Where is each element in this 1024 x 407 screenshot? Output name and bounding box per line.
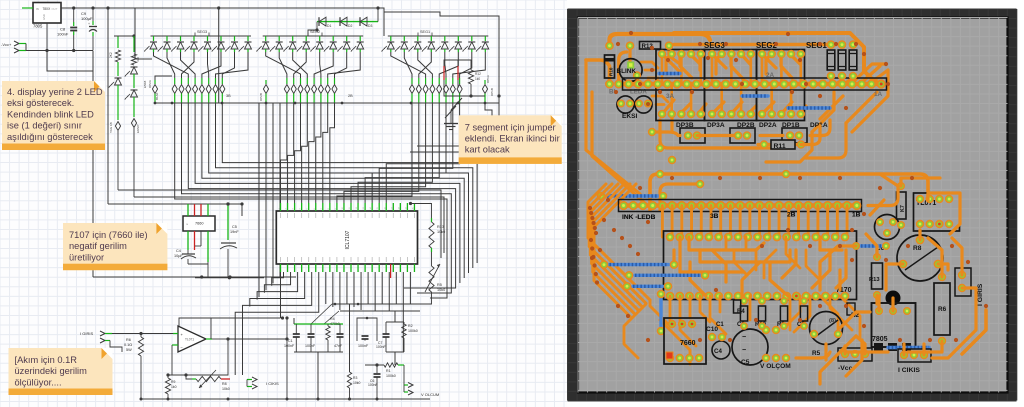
pads mid bottom xyxy=(708,333,716,341)
trace module2 interior xyxy=(712,54,726,68)
transistor K1 xyxy=(875,215,900,240)
diode D1 xyxy=(317,21,378,23)
trace fan right of row xyxy=(851,64,886,84)
trace row to socket xyxy=(661,206,664,238)
resistor R1 xyxy=(365,364,384,366)
svg-text:100nF: 100nF xyxy=(368,383,378,387)
diamond SEG3 col 7 xyxy=(215,78,217,84)
led SEG3 seg 7 xyxy=(234,36,236,41)
svg-text:C1: C1 xyxy=(716,322,724,328)
svg-text:D1: D1 xyxy=(327,24,331,28)
svg-text:47nF: 47nF xyxy=(334,344,343,348)
resistor R16 column xyxy=(117,36,119,48)
pcb panel frame xyxy=(568,9,1017,401)
svg-text:GND: GND xyxy=(42,14,46,20)
led SEG1 seg 3 xyxy=(417,36,419,41)
wire drop right of C5 xyxy=(241,204,243,216)
led SEG1 seg 8 xyxy=(484,36,486,41)
wire left led column rails xyxy=(118,190,441,258)
led SEG2 seg 3 xyxy=(292,36,294,41)
seg1 resistor pads xyxy=(827,40,836,49)
svg-text:4. display yerine 2 LED: 4. display yerine 2 LED xyxy=(7,87,103,97)
svg-text:0.1Ω: 0.1Ω xyxy=(124,343,132,347)
svg-text:DP2A: DP2A xyxy=(148,80,152,88)
wire red pin xyxy=(390,264,392,278)
diamond SEG3 col 5 xyxy=(201,78,203,84)
node V OLCUM xyxy=(403,365,405,385)
segment group SEG1 bus xyxy=(388,35,489,37)
cap C5 xyxy=(732,329,768,365)
wire mid rails xyxy=(332,303,430,305)
trace socket bottom fan xyxy=(669,296,672,322)
diamond SEG2 col 6 xyxy=(320,78,322,84)
diamond SEG1 col 7 xyxy=(452,78,454,84)
led SEG1 seg 7 xyxy=(471,36,473,41)
trace seg1 resistors xyxy=(829,76,832,84)
svg-text:I GIRIS: I GIRIS xyxy=(977,283,984,306)
svg-text:R2: R2 xyxy=(408,324,413,328)
diode eksi xyxy=(605,55,615,78)
svg-text:üretiliyor: üretiliyor xyxy=(69,252,104,262)
svg-text:7805: 7805 xyxy=(33,24,43,29)
diamond SEG3 col 1 xyxy=(174,78,176,84)
svg-text:R10: R10 xyxy=(609,67,614,76)
svg-text:DP2A: DP2A xyxy=(759,122,777,129)
wire right columns xyxy=(258,103,260,297)
wire IC bottom mid drops xyxy=(325,272,327,304)
svg-text:3B: 3B xyxy=(710,213,719,220)
led SEG3 seg 4 xyxy=(193,36,195,41)
svg-text:SEG2: SEG2 xyxy=(756,41,777,50)
wire bottom bus xyxy=(141,398,430,400)
svg-text:3B: 3B xyxy=(226,94,231,98)
diamond DP1A xyxy=(484,80,486,84)
diamond SEG1 col 1 xyxy=(411,78,413,84)
svg-text:10k0: 10k0 xyxy=(437,230,445,234)
ic TL071 socket xyxy=(914,193,960,231)
led SEG1 seg 4 xyxy=(430,36,432,41)
resistor R13 xyxy=(409,202,412,205)
svg-text:I GIRIS: I GIRIS xyxy=(80,331,93,336)
capacitor C1 xyxy=(294,323,343,325)
svg-text:negatif gerilim: negatif gerilim xyxy=(69,241,127,251)
schematic grid background xyxy=(0,0,567,407)
resistor R4 xyxy=(327,324,329,326)
node I CIKIS xyxy=(252,377,257,382)
wire bus group1 rails xyxy=(175,103,447,298)
wire feedback xyxy=(206,338,212,340)
diamond SEG2 col 4 xyxy=(306,78,308,84)
trace r11 right xyxy=(801,126,820,145)
trace blink bundle xyxy=(641,62,658,68)
svg-text:1k0: 1k0 xyxy=(171,385,177,389)
connector DP3 module xyxy=(656,50,705,121)
resistor R13b xyxy=(872,263,883,289)
svg-text:7107 için (7660 ile): 7107 için (7660 ile) xyxy=(69,230,148,240)
led SEG3 seg 1 xyxy=(153,36,155,41)
resistor R3 xyxy=(349,304,351,372)
diamond SEG2 col 3 xyxy=(300,78,302,84)
capacitor Cref xyxy=(357,318,377,341)
wire 7660 out xyxy=(188,262,208,264)
trace seg1 top wrap xyxy=(674,33,882,84)
pads row left xyxy=(605,80,614,89)
diamond SEG3 col 2 xyxy=(181,78,183,84)
capacitor C9 xyxy=(92,8,94,21)
led SEG1 seg 2 xyxy=(403,36,405,41)
svg-text:−: − xyxy=(742,334,746,341)
resistor R9 xyxy=(167,375,169,378)
svg-text:C5: C5 xyxy=(741,359,750,366)
pads I CIKIS xyxy=(888,346,929,349)
svg-text:[Akım için 0.1R: [Akım için 0.1R xyxy=(15,355,78,365)
svg-text:R9: R9 xyxy=(171,380,175,384)
jumper bl1 xyxy=(607,194,658,197)
connector DP2 module xyxy=(705,50,757,121)
trace module1 interior xyxy=(662,54,680,72)
svg-text:K7: K7 xyxy=(900,205,906,212)
wire Vout rail xyxy=(61,7,135,9)
diamond SEG1 col 6 xyxy=(445,78,447,84)
svg-text:1B: 1B xyxy=(852,212,861,219)
wire seg3 select xyxy=(135,8,152,59)
svg-text:I CIKIS: I CIKIS xyxy=(898,367,920,374)
svg-text:100µF: 100µF xyxy=(81,16,93,21)
svg-text:kart olacak: kart olacak xyxy=(465,145,510,155)
svg-text:DP2B: DP2B xyxy=(259,93,263,101)
svg-text:C4: C4 xyxy=(176,249,181,253)
svg-text:TL071: TL071 xyxy=(185,338,194,342)
note display LEDs xyxy=(2,81,105,150)
potentiometer R8 xyxy=(186,375,192,379)
svg-text:R5: R5 xyxy=(437,283,442,287)
diamond SEG2 col 2 xyxy=(293,78,295,84)
led SEG3 seg 8 xyxy=(247,36,249,41)
svg-text:100nF: 100nF xyxy=(376,345,386,349)
trace top-left loop xyxy=(610,34,711,46)
pads dp extra xyxy=(648,128,656,136)
segment group SEG2 bus xyxy=(263,35,364,37)
pads I GIRIS xyxy=(955,268,971,296)
diamond SEG1 col 2 xyxy=(418,78,420,84)
capacitor C2 xyxy=(310,324,312,334)
svg-text:SEG2: SEG2 xyxy=(310,30,320,34)
diamond SEG3 col 8 xyxy=(221,78,223,84)
op-amp U4 TL071 xyxy=(178,326,206,352)
svg-text:7 segment için jumper: 7 segment için jumper xyxy=(465,122,556,132)
wire bus staircase group2 xyxy=(281,103,287,203)
resistor R6 shunt xyxy=(140,334,142,338)
trace socket mid extra xyxy=(734,250,746,274)
wire cathode bus xyxy=(155,102,499,104)
svg-text:SEG3: SEG3 xyxy=(197,30,207,34)
svg-text:−: − xyxy=(742,347,746,354)
svg-text:DP1B: DP1B xyxy=(490,88,494,96)
led EKSI pads xyxy=(617,96,634,113)
svg-text:2K2: 2K2 xyxy=(109,52,113,58)
svg-text:DP3A: DP3A xyxy=(707,122,725,129)
svg-text:R4: R4 xyxy=(330,317,335,321)
led SEG2 seg 1 xyxy=(265,36,267,41)
svg-text:10k0: 10k0 xyxy=(353,381,360,385)
svg-text:D3: D3 xyxy=(368,24,372,28)
svg-text:C5: C5 xyxy=(232,225,237,229)
svg-text:+: + xyxy=(88,22,90,26)
wire opamp -in xyxy=(172,344,178,346)
led D5 xyxy=(115,77,122,79)
svg-text:C1: C1 xyxy=(288,339,293,343)
wire to lower rails xyxy=(47,51,93,72)
diamond SEG2 col 7 xyxy=(327,78,329,84)
svg-text:DP1A: DP1A xyxy=(486,75,490,83)
wire seg1 select xyxy=(383,12,385,36)
led SEG2 seg 2 xyxy=(278,36,280,41)
pads bottom board top xyxy=(656,170,665,179)
led SEG1 seg 5 xyxy=(444,36,446,41)
diamond SEG1 col 8 xyxy=(459,78,461,84)
svg-text:78XX: 78XX xyxy=(43,7,52,11)
svg-text:R3: R3 xyxy=(353,376,357,380)
svg-text:100nF: 100nF xyxy=(305,344,316,348)
resistor R12 xyxy=(457,66,459,80)
svg-text:B1A0: B1A0 xyxy=(155,92,159,100)
svg-text:19nF: 19nF xyxy=(230,230,239,234)
led D7 xyxy=(133,74,135,88)
dp jumper pads xyxy=(680,128,705,143)
svg-text:5W: 5W xyxy=(126,348,132,352)
wire caps common xyxy=(294,351,343,353)
svg-text:100nF: 100nF xyxy=(358,344,369,348)
connector row pads xyxy=(624,79,633,88)
svg-text:V OLÇOM: V OLÇOM xyxy=(760,363,791,370)
wire 7660 supply xyxy=(108,204,242,216)
svg-text:10µF: 10µF xyxy=(174,254,183,258)
svg-text:1k0: 1k0 xyxy=(475,77,480,81)
led BLINK xyxy=(619,59,642,82)
regulator U_7805 xyxy=(33,3,61,24)
resistor R6b xyxy=(934,283,950,335)
led SEG2 seg 4 xyxy=(305,36,307,41)
led SEG3 seg 2 xyxy=(166,36,168,41)
trace right bottom xyxy=(928,238,942,277)
trace dp row xyxy=(697,134,734,137)
trace socket interior xyxy=(689,237,764,250)
jumper top3 xyxy=(788,106,830,109)
diamond SEG2 col 8 xyxy=(334,78,336,84)
svg-text:100k0: 100k0 xyxy=(408,329,418,333)
wire IC bottom fanout xyxy=(272,272,284,286)
trace module3 interior xyxy=(762,54,776,68)
svg-text:R5: R5 xyxy=(812,350,821,357)
wire bus staircase group3 xyxy=(337,103,412,203)
svg-text:üzerindeki gerilim: üzerindeki gerilim xyxy=(15,366,88,376)
ic socket 7170 xyxy=(664,231,857,300)
capacitor C6b xyxy=(376,365,378,373)
svg-text:IN: IN xyxy=(36,7,39,11)
module bottom pads xyxy=(658,110,667,119)
svg-text:R1: R1 xyxy=(386,369,391,373)
socket pads xyxy=(666,233,675,242)
note current shunt xyxy=(9,348,113,395)
svg-text:3A: 3A xyxy=(666,93,675,100)
wire gnd rail xyxy=(25,44,27,51)
led SEG2 seg 7 xyxy=(346,36,348,41)
svg-text:OUT: OUT xyxy=(52,7,58,11)
svg-text:C4: C4 xyxy=(714,348,722,355)
svg-text:10k0: 10k0 xyxy=(222,387,230,391)
resistor R11 xyxy=(758,143,806,146)
trace module drops xyxy=(661,54,664,84)
wire negative rail xyxy=(93,276,296,278)
op-amp U3 ICL7107 xyxy=(276,211,417,264)
vias fan xyxy=(588,206,592,210)
jumpers bottom left xyxy=(610,263,669,266)
svg-text:R8: R8 xyxy=(222,382,227,386)
svg-text:R6: R6 xyxy=(126,338,131,342)
ground xyxy=(450,110,452,123)
svg-text:SEG3: SEG3 xyxy=(704,41,725,50)
svg-text:eklendi. Ekran ikinci bir: eklendi. Ekran ikinci bir xyxy=(465,134,560,144)
resistor R12 xyxy=(640,42,661,50)
trace dp feed xyxy=(660,120,760,148)
vias bottom xyxy=(612,228,616,232)
cap C4 xyxy=(712,341,730,359)
connector main row xyxy=(623,203,857,208)
regulator 7805 xyxy=(872,303,916,347)
capacitor C3 xyxy=(339,324,341,334)
diode D3 xyxy=(360,17,367,26)
svg-text:R12: R12 xyxy=(475,72,481,76)
connector row outline xyxy=(623,78,887,90)
svg-text:2B: 2B xyxy=(787,212,796,219)
trimmer R8 xyxy=(897,235,943,281)
vias top section xyxy=(616,42,620,46)
svg-text:ICL7107: ICL7107 xyxy=(345,230,351,249)
svg-text:EKSI: EKSI xyxy=(622,113,638,120)
svg-text:SEG1: SEG1 xyxy=(806,41,827,50)
svg-text:R6: R6 xyxy=(938,306,947,313)
svg-text:D2: D2 xyxy=(348,24,352,28)
svg-text:R8: R8 xyxy=(913,245,922,252)
svg-text:INK -LEDB: INK -LEDB xyxy=(622,214,656,221)
jumper top2 xyxy=(742,94,768,97)
diode D1 xyxy=(319,17,326,26)
led SEG3 seg 5 xyxy=(207,36,209,41)
led SEG1 seg 1 xyxy=(390,36,392,41)
svg-text:R11: R11 xyxy=(774,143,786,150)
led SEG2 seg 8 xyxy=(359,36,361,41)
resistor R7 xyxy=(897,192,907,219)
svg-text:Kendinden blink LED: Kendinden blink LED xyxy=(7,109,94,119)
svg-text:SEG1: SEG1 xyxy=(420,30,430,34)
led SEG3 seg 3 xyxy=(180,36,182,41)
led D6 xyxy=(131,66,138,68)
capacitor C7 xyxy=(385,322,387,334)
trace left fan xyxy=(588,184,650,300)
svg-text:ise (1 değeri) sınır: ise (1 değeri) sınır xyxy=(7,121,82,131)
potentiometer R5 xyxy=(431,252,433,266)
svg-text:I CIKIS: I CIKIS xyxy=(266,381,279,386)
led SEG1 seg 6 xyxy=(457,36,459,41)
svg-text:R13: R13 xyxy=(437,225,444,229)
diamond SEG3 col 6 xyxy=(208,78,210,84)
diamond DP2B xyxy=(265,80,267,84)
jumper top1 xyxy=(659,72,680,75)
charge-pump U2 7660 xyxy=(183,216,215,231)
svg-text:100nF: 100nF xyxy=(284,344,295,348)
trace right top xyxy=(868,174,898,206)
trace left column xyxy=(586,60,640,194)
svg-text:100nF: 100nF xyxy=(57,32,69,37)
diamond DP3A xyxy=(154,80,156,84)
diamond SEG1 col 5 xyxy=(438,78,440,84)
led SEG3 seg 6 xyxy=(220,36,222,41)
svg-text:10k0: 10k0 xyxy=(437,288,445,292)
pcb board xyxy=(578,18,1008,393)
wire right pin drops xyxy=(374,272,376,311)
led SEG2 seg 6 xyxy=(332,36,334,41)
svg-text:BLINK: BLINK xyxy=(617,68,637,75)
svg-text:7660: 7660 xyxy=(680,340,696,347)
diamond SEG1 col 3 xyxy=(425,78,427,84)
svg-text:1A: 1A xyxy=(874,91,883,98)
svg-text:-Vcc+: -Vcc+ xyxy=(1,42,12,47)
ic 7660 xyxy=(664,318,706,364)
capacitor C8 xyxy=(73,8,75,22)
svg-text:V OLCUM: V OLCUM xyxy=(421,392,439,397)
diamond SEG3 col 3 xyxy=(187,78,189,84)
resistor R2 xyxy=(403,322,405,324)
svg-text:7660: 7660 xyxy=(195,222,203,226)
note 7660 negative rail xyxy=(63,223,167,270)
pads -Vcc+ xyxy=(838,348,872,361)
svg-text:YAG 1B: YAG 1B xyxy=(109,122,113,133)
trace bottom right drop xyxy=(962,310,986,354)
resistor network outlines seg1 xyxy=(827,50,835,70)
note 7 segment jumper xyxy=(459,115,562,164)
diamond SEG2 col 5 xyxy=(313,78,315,84)
svg-text:2B: 2B xyxy=(348,94,353,98)
svg-text:aşıldığını gösterecek: aşıldığını gösterecek xyxy=(7,132,93,142)
svg-text:EKSIY: EKSIY xyxy=(136,124,140,133)
led SEG2 seg 5 xyxy=(319,36,321,41)
connector DP1 module xyxy=(757,50,805,121)
wire seg2 select xyxy=(218,8,220,103)
segment group SEG3 bus xyxy=(151,35,252,37)
svg-text:470k0: 470k0 xyxy=(330,322,340,326)
svg-text:(8): (8) xyxy=(829,318,836,324)
svg-text:R13: R13 xyxy=(869,277,880,283)
svg-text:ölçülüyor....: ölçülüyor.... xyxy=(15,377,62,387)
diamond SEG1 col 4 xyxy=(431,78,433,84)
svg-text:100k0: 100k0 xyxy=(386,374,396,378)
resistor R17 column xyxy=(132,34,135,37)
diamond SEG3 col 4 xyxy=(194,78,196,84)
svg-text:E5K8: E5K8 xyxy=(143,80,147,88)
wire top rail xyxy=(135,8,499,96)
diamond SEG2 col 1 xyxy=(286,78,288,84)
wire seg1 right drop xyxy=(498,96,500,103)
trimmer R5 xyxy=(810,312,843,345)
module top pads xyxy=(658,50,667,59)
wire opamp +in xyxy=(112,333,178,335)
diode D2 xyxy=(340,17,347,26)
trace connector row rail xyxy=(624,82,882,87)
trace bottom board top border xyxy=(650,174,786,210)
hole xyxy=(886,291,901,306)
svg-text:eksi gösterecek.: eksi gösterecek. xyxy=(7,98,74,108)
svg-text:7805: 7805 xyxy=(872,336,888,343)
